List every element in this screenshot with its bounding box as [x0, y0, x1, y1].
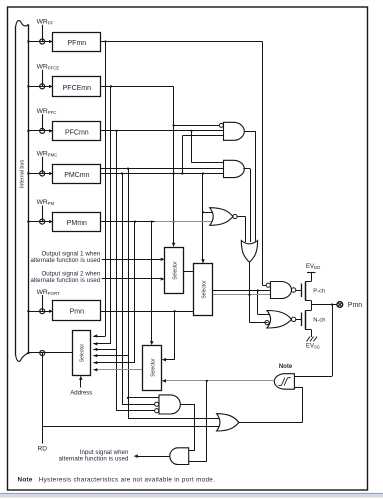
svg-text:alternate function is used: alternate function is used [30, 257, 100, 264]
svg-text:Selector: Selector [150, 358, 156, 377]
svg-text:EVDD: EVDD [306, 264, 320, 270]
svg-text:Selector: Selector [80, 343, 86, 362]
svg-text:WRPFC: WRPFC [37, 108, 57, 115]
svg-text:PFCEmn: PFCEmn [63, 85, 92, 92]
svg-text:WRPFCE: WRPFCE [37, 64, 60, 71]
svg-text:PFmn: PFmn [68, 40, 87, 47]
svg-text:N-ch: N-ch [313, 317, 325, 323]
svg-text:WRPM: WRPM [37, 199, 55, 206]
svg-text:RD: RD [38, 445, 48, 452]
svg-text:Hysteresis characteristics are: Hysteresis characteristics are not avail… [39, 476, 215, 483]
svg-text:PFCmn: PFCmn [65, 130, 89, 137]
svg-text:Address: Address [70, 390, 92, 396]
svg-text:alternate function is used: alternate function is used [30, 277, 100, 284]
svg-text:P-ch: P-ch [313, 288, 325, 294]
svg-text:Pmn: Pmn [348, 302, 363, 309]
svg-text:WRPMC: WRPMC [37, 151, 58, 158]
svg-text:alternate function is used: alternate function is used [59, 456, 129, 463]
svg-text:Selector: Selector [173, 261, 179, 280]
svg-text:Note: Note [18, 476, 33, 483]
svg-text:PMCmn: PMCmn [64, 172, 89, 179]
svg-text:Internal bus: Internal bus [20, 160, 26, 188]
svg-text:Selector: Selector [201, 280, 207, 299]
svg-text:EVSS: EVSS [306, 344, 320, 350]
svg-text:WRPF: WRPF [37, 19, 54, 26]
svg-text:PMmn: PMmn [67, 220, 87, 227]
svg-text:Note: Note [279, 364, 293, 370]
svg-text:WRPORT: WRPORT [37, 289, 60, 296]
svg-text:Pmn: Pmn [70, 309, 85, 316]
